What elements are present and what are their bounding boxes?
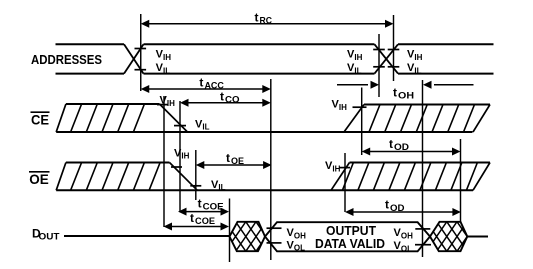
svg-text:IH: IH bbox=[167, 99, 175, 108]
svg-text:IL: IL bbox=[354, 66, 361, 75]
svg-text:DATA VALID: DATA VALID bbox=[315, 237, 385, 251]
svg-text:IH: IH bbox=[181, 152, 189, 161]
svg-text:OL: OL bbox=[294, 244, 305, 253]
svg-text:t: t bbox=[226, 151, 230, 165]
svg-text:IH: IH bbox=[339, 103, 347, 112]
svg-text:IL: IL bbox=[218, 183, 225, 192]
svg-text:OD: OD bbox=[394, 142, 410, 152]
svg-text:RC: RC bbox=[260, 16, 273, 26]
svg-text:OUTPUT: OUTPUT bbox=[326, 224, 376, 238]
svg-text:IH: IH bbox=[354, 53, 362, 62]
svg-text:t: t bbox=[389, 137, 393, 151]
svg-text:t: t bbox=[220, 90, 224, 104]
svg-text:OH: OH bbox=[294, 231, 306, 240]
svg-text:t: t bbox=[199, 76, 203, 90]
svg-text:IH: IH bbox=[163, 53, 171, 62]
svg-text:IH: IH bbox=[332, 165, 340, 174]
svg-text:OUT: OUT bbox=[39, 231, 61, 241]
svg-text:OL: OL bbox=[401, 244, 412, 253]
svg-text:t: t bbox=[393, 86, 397, 100]
svg-text:OE: OE bbox=[29, 171, 49, 187]
svg-text:t: t bbox=[385, 198, 389, 212]
svg-text:COE: COE bbox=[195, 216, 215, 226]
svg-text:IL: IL bbox=[163, 66, 170, 75]
svg-text:IL: IL bbox=[202, 123, 209, 132]
svg-text:OH: OH bbox=[398, 91, 414, 101]
svg-text:OE: OE bbox=[231, 156, 244, 166]
svg-text:t: t bbox=[255, 10, 259, 24]
svg-text:t: t bbox=[190, 211, 194, 225]
svg-text:CE: CE bbox=[31, 112, 49, 128]
svg-text:IL: IL bbox=[414, 66, 421, 75]
svg-text:OH: OH bbox=[401, 231, 413, 240]
svg-text:COE: COE bbox=[203, 202, 224, 212]
svg-text:OD: OD bbox=[390, 203, 405, 213]
svg-text:ADDRESSES: ADDRESSES bbox=[31, 53, 102, 67]
svg-text:t: t bbox=[198, 196, 202, 210]
svg-text:IH: IH bbox=[414, 53, 422, 62]
svg-text:CO: CO bbox=[225, 95, 240, 105]
